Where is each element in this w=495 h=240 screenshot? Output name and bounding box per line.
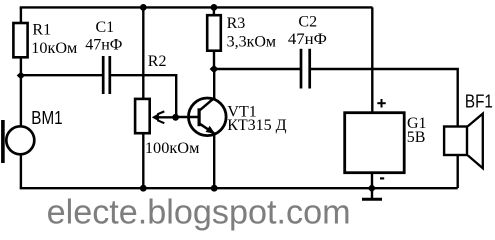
capacitor C1 — [102, 56, 105, 94]
ground — [371, 188, 373, 199]
battery G1 — [345, 113, 405, 173]
wire collector vertical — [213, 69, 215, 98]
wire speaker bottom stub — [457, 156, 459, 189]
wire battery bottom stub — [371, 173, 373, 188]
wire R2 bottom stub — [142, 133, 144, 188]
node dot on rail at R3 — [211, 4, 218, 11]
node wiper junction — [172, 114, 179, 121]
wire wiper to base — [176, 116, 199, 118]
wire BM1 top stub — [20, 76, 22, 128]
wire R3 top stub — [213, 7, 215, 15]
wire emitter vertical — [213, 133, 215, 188]
svg-text:10кОм: 10кОм — [31, 40, 77, 57]
transistor VT1 — [189, 98, 227, 136]
label minus — [380, 177, 384, 179]
svg-text:electe.blogspot.com: electe.blogspot.com — [47, 194, 351, 232]
node dot battery/ground — [367, 184, 376, 193]
resistor R1 — [13, 23, 27, 57]
svg-text:C1: C1 — [96, 19, 115, 36]
svg-text:R3: R3 — [227, 15, 246, 32]
svg-text:C2: C2 — [298, 14, 317, 31]
svg-text:R1: R1 — [32, 22, 51, 39]
node dot on bottom rail at emitter — [211, 185, 218, 192]
node junction R1/BM1/C1 — [17, 72, 25, 80]
node dot on rail at R2 — [140, 4, 147, 11]
microphone BM1 — [6, 126, 34, 154]
node dot on bottom rail at R2 — [140, 185, 147, 192]
wire bottom rail — [20, 187, 458, 189]
svg-text:3,3кОм: 3,3кОм — [227, 34, 276, 51]
wire C2 to speaker corner — [311, 69, 458, 126]
wiper arrow of R2 — [154, 116, 176, 118]
svg-text:47нФ: 47нФ — [288, 31, 327, 48]
svg-text:BM1: BM1 — [31, 108, 62, 128]
wire R1 bottom stub — [20, 58, 22, 76]
wire battery top drop — [371, 7, 373, 112]
potentiometer R2 — [135, 99, 150, 133]
wire BM1 bottom stub — [20, 154, 22, 188]
svg-text:100кОм: 100кОм — [145, 140, 200, 157]
wire R3 bottom stub — [213, 52, 215, 69]
svg-text:R2: R2 — [148, 53, 167, 70]
node collector junction — [210, 65, 219, 73]
capacitor C2 — [300, 49, 303, 89]
svg-text:КТ315 Д: КТ315 Д — [227, 117, 286, 134]
speaker BF1 — [444, 127, 467, 156]
svg-text:5В: 5В — [407, 129, 426, 146]
wire C1 to base corner — [111, 75, 176, 117]
wire coupling to C1 — [21, 74, 102, 76]
resistor R3 — [207, 15, 221, 51]
wire R1 top stub — [20, 7, 22, 23]
wire R2 top drop — [142, 7, 144, 99]
label plus — [377, 102, 385, 104]
wire top rail — [20, 6, 373, 8]
wire collector to C2 — [214, 68, 300, 70]
svg-text:BF1: BF1 — [465, 92, 493, 112]
svg-text:47нФ: 47нФ — [85, 36, 122, 53]
